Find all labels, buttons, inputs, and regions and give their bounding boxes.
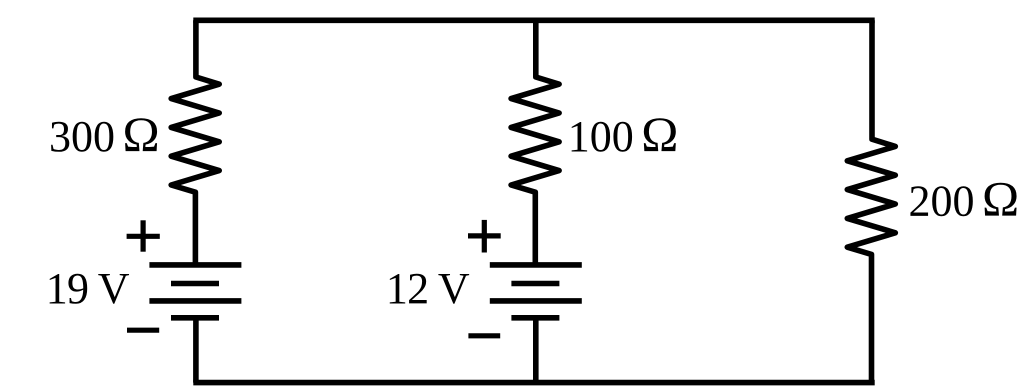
svg-text:300 Ω: 300 Ω bbox=[49, 106, 160, 162]
wire: middle branch from battery B2 to bottom bus bbox=[533, 318, 539, 383]
plus sign of battery B2 bbox=[468, 220, 501, 253]
svg-text:200 Ω: 200 Ω bbox=[909, 171, 1020, 227]
battery B1 plate 3 (long) bbox=[149, 298, 241, 304]
plus sign of battery B1 bbox=[127, 220, 160, 251]
minus sign of battery B2 bbox=[468, 333, 500, 338]
battery B1 plate 4 (short, -) bbox=[171, 315, 219, 321]
svg-text:12 V: 12 V bbox=[386, 264, 470, 313]
resistor R1 300 ohm (zigzag) bbox=[171, 20, 219, 263]
wire: left branch from battery B1 to bottom bus bbox=[193, 318, 199, 383]
battery B1 19 V : plate 1 (long, +) bbox=[149, 262, 241, 268]
wire: top bus from node A (left) to node C (right) bbox=[196, 17, 872, 23]
svg-text:19 V: 19 V bbox=[46, 264, 130, 313]
svg-text:100 Ω: 100 Ω bbox=[568, 106, 679, 162]
wire: bottom bus from left branch to right branch bbox=[196, 380, 872, 386]
battery B2 12 V : plate 1 (long, +) bbox=[490, 262, 582, 268]
battery B2 plate 3 (long) bbox=[490, 298, 582, 304]
minus sign of battery B1 bbox=[127, 328, 159, 333]
resistor R3 200 ohm (zigzag) bbox=[847, 20, 895, 382]
resistor R2 100 ohm (zigzag) bbox=[511, 20, 559, 263]
battery B2 plate 4 (short, -) bbox=[511, 315, 559, 321]
battery B2 plate 2 (short) bbox=[511, 281, 559, 287]
battery B1 plate 2 (short) bbox=[171, 281, 219, 287]
